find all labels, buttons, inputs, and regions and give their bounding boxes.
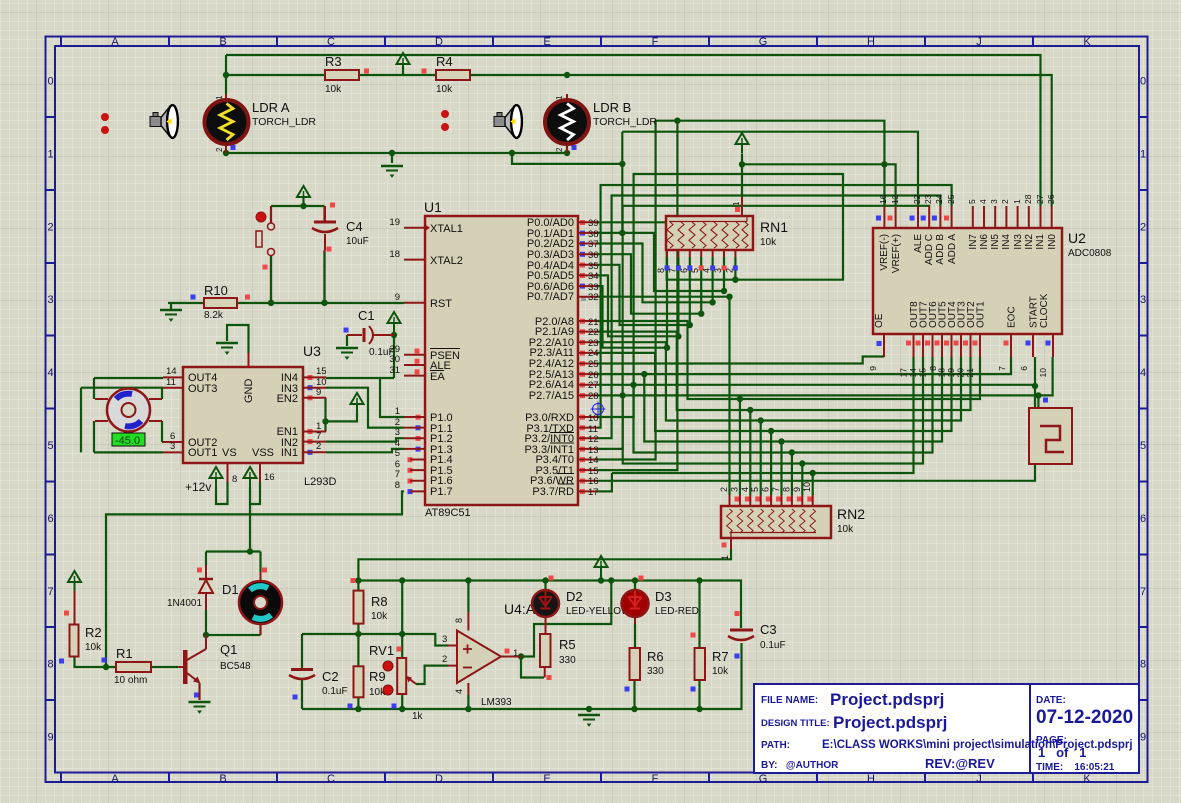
svg-text:7: 7 <box>1140 586 1146 598</box>
svg-text:8: 8 <box>1140 659 1146 671</box>
svg-text:2: 2 <box>1000 199 1010 204</box>
svg-text:TIME: 16:05:21: TIME: 16:05:21 <box>1036 762 1115 773</box>
svg-text:3: 3 <box>47 294 53 306</box>
svg-text:7: 7 <box>395 469 400 480</box>
svg-text:IN7: IN7 <box>968 234 979 250</box>
svg-text:27: 27 <box>588 380 599 391</box>
svg-text:8: 8 <box>232 474 237 485</box>
svg-text:B: B <box>219 36 226 48</box>
svg-text:START: START <box>1029 296 1040 328</box>
svg-text:1: 1 <box>47 148 53 160</box>
svg-text:8: 8 <box>781 487 791 492</box>
svg-text:E: E <box>543 773 550 785</box>
svg-text:1: 1 <box>395 406 400 417</box>
svg-text:RST: RST <box>430 298 452 310</box>
svg-text:J: J <box>976 36 982 48</box>
svg-text:330: 330 <box>647 666 664 677</box>
svg-text:LM393: LM393 <box>481 697 512 708</box>
svg-text:3: 3 <box>989 199 999 204</box>
svg-text:Project.pdsprj: Project.pdsprj <box>833 713 947 732</box>
svg-text:VREF(-): VREF(-) <box>879 234 890 271</box>
svg-text:10: 10 <box>588 413 599 424</box>
svg-text:39: 39 <box>588 218 599 229</box>
svg-text:Project.pdsprj: Project.pdsprj <box>830 690 944 709</box>
svg-text:E: E <box>543 36 550 48</box>
svg-text:20: 20 <box>956 368 966 378</box>
svg-text:1 of 1: 1 of 1 <box>1038 745 1086 760</box>
svg-text:7: 7 <box>771 487 781 492</box>
svg-text:2: 2 <box>215 147 224 152</box>
svg-text:7: 7 <box>667 268 677 273</box>
svg-text:22: 22 <box>588 327 599 338</box>
svg-text:C3: C3 <box>760 622 777 637</box>
svg-text:07-12-2020: 07-12-2020 <box>1036 707 1133 728</box>
svg-text:OUT3: OUT3 <box>188 383 217 395</box>
svg-text:25: 25 <box>588 359 599 370</box>
svg-text:5: 5 <box>1140 440 1146 452</box>
svg-text:8: 8 <box>656 268 666 273</box>
svg-text:19: 19 <box>389 217 400 228</box>
svg-text:XTAL1: XTAL1 <box>430 223 463 235</box>
svg-text:BY: @AUTHOR: BY: @AUTHOR <box>761 760 839 771</box>
svg-text:VS: VS <box>222 447 237 459</box>
svg-text:P1.7: P1.7 <box>430 486 453 498</box>
svg-text:F: F <box>652 773 659 785</box>
svg-text:R6: R6 <box>647 649 664 664</box>
svg-text:1: 1 <box>720 555 730 560</box>
svg-text:0.1uF: 0.1uF <box>369 347 395 358</box>
svg-text:1: 1 <box>1012 199 1022 204</box>
svg-text:IN0: IN0 <box>1047 234 1058 250</box>
svg-text:10k: 10k <box>837 524 854 535</box>
svg-text:P2.7/A15: P2.7/A15 <box>529 390 574 402</box>
svg-text:16: 16 <box>264 472 275 483</box>
svg-text:1: 1 <box>732 201 741 206</box>
svg-text:14: 14 <box>588 455 599 466</box>
svg-text:2: 2 <box>47 221 53 233</box>
svg-text:10k: 10k <box>371 611 388 622</box>
svg-text:IN3: IN3 <box>1013 234 1024 250</box>
svg-text:0: 0 <box>1140 76 1146 88</box>
svg-text:ADC0808: ADC0808 <box>1068 248 1112 259</box>
svg-text:25: 25 <box>946 194 956 204</box>
svg-text:2: 2 <box>719 487 729 492</box>
svg-text:4: 4 <box>702 268 712 273</box>
svg-text:9: 9 <box>1140 732 1146 744</box>
svg-text:14: 14 <box>166 366 177 377</box>
svg-text:C2: C2 <box>322 669 339 684</box>
svg-text:LED-RED: LED-RED <box>655 606 699 617</box>
svg-text:IN2: IN2 <box>1024 234 1035 250</box>
svg-text:17: 17 <box>588 487 599 498</box>
svg-text:31: 31 <box>389 365 400 376</box>
svg-text:16: 16 <box>588 476 599 487</box>
svg-text:U3: U3 <box>303 343 321 359</box>
svg-text:A: A <box>111 36 119 48</box>
svg-text:5: 5 <box>750 487 760 492</box>
svg-text:6: 6 <box>1140 513 1146 525</box>
svg-text:G: G <box>759 36 768 48</box>
svg-text:28: 28 <box>1023 194 1033 204</box>
svg-text:4: 4 <box>978 199 988 204</box>
svg-text:D: D <box>435 773 443 785</box>
svg-text:6: 6 <box>1019 366 1029 371</box>
svg-text:9: 9 <box>792 487 802 492</box>
svg-text:R7: R7 <box>712 649 729 664</box>
svg-text:6: 6 <box>47 513 53 525</box>
svg-text:C: C <box>327 773 335 785</box>
svg-text:36: 36 <box>588 250 599 261</box>
svg-text:3: 3 <box>1140 294 1146 306</box>
svg-text:ADD B: ADD B <box>935 234 946 265</box>
svg-text:D1: D1 <box>222 582 239 597</box>
svg-text:10: 10 <box>802 482 812 492</box>
svg-text:XTAL2: XTAL2 <box>430 255 463 267</box>
svg-text:27: 27 <box>1035 194 1045 204</box>
svg-text:D3: D3 <box>655 589 672 604</box>
svg-text:9: 9 <box>395 292 400 303</box>
svg-text:C: C <box>327 36 335 48</box>
svg-text:J: J <box>976 773 982 785</box>
svg-text:10k: 10k <box>760 237 777 248</box>
svg-text:K: K <box>1083 773 1091 785</box>
svg-text:17: 17 <box>899 368 909 378</box>
svg-text:FILE NAME:: FILE NAME: <box>761 695 818 706</box>
svg-text:8: 8 <box>395 480 400 491</box>
svg-text:A: A <box>111 773 119 785</box>
svg-text:10: 10 <box>1038 368 1048 378</box>
svg-text:PATH:: PATH: <box>761 740 790 751</box>
svg-text:REV:@REV: REV:@REV <box>925 756 995 771</box>
svg-text:K: K <box>1083 36 1091 48</box>
svg-text:VSS: VSS <box>252 447 274 459</box>
svg-text:G: G <box>759 773 768 785</box>
svg-text:5: 5 <box>967 199 977 204</box>
svg-text:1: 1 <box>513 648 518 659</box>
svg-text:2: 2 <box>555 147 564 152</box>
svg-text:OUT1: OUT1 <box>188 447 217 459</box>
svg-text:10k: 10k <box>712 666 729 677</box>
svg-text:D2: D2 <box>566 589 583 604</box>
svg-text:330: 330 <box>559 655 576 666</box>
svg-text:37: 37 <box>588 239 599 250</box>
svg-text:10k: 10k <box>325 84 342 95</box>
svg-text:TORCH_LDR: TORCH_LDR <box>252 116 316 128</box>
svg-text:2: 2 <box>724 268 734 273</box>
svg-text:6: 6 <box>761 487 771 492</box>
svg-text:R1: R1 <box>116 646 133 661</box>
svg-text:4: 4 <box>740 487 750 492</box>
svg-text:12: 12 <box>588 434 599 445</box>
svg-text:U1: U1 <box>424 199 442 215</box>
svg-text:22: 22 <box>912 194 922 204</box>
svg-text:10 ohm: 10 ohm <box>114 675 147 686</box>
svg-text:9: 9 <box>316 387 321 398</box>
svg-text:IN5: IN5 <box>990 234 1001 250</box>
svg-text:L293D: L293D <box>304 476 336 488</box>
svg-text:CLOCK: CLOCK <box>1039 293 1050 328</box>
svg-text:TORCH_LDR: TORCH_LDR <box>593 116 657 128</box>
svg-text:ALE: ALE <box>913 234 924 253</box>
svg-text:28: 28 <box>588 391 599 402</box>
svg-text:EA: EA <box>430 371 445 383</box>
svg-text:10k: 10k <box>436 84 453 95</box>
svg-text:LDR A: LDR A <box>252 100 290 115</box>
svg-text:2: 2 <box>442 654 447 665</box>
svg-text:VREF(+): VREF(+) <box>891 234 902 273</box>
svg-text:C4: C4 <box>346 219 363 234</box>
svg-text:H: H <box>867 773 875 785</box>
svg-text:ADD C: ADD C <box>924 234 935 265</box>
svg-text:15: 15 <box>918 368 928 378</box>
svg-text:C1: C1 <box>358 308 375 323</box>
svg-text:IN1: IN1 <box>281 447 298 459</box>
svg-text:4: 4 <box>1140 367 1146 379</box>
svg-text:8: 8 <box>454 618 464 623</box>
svg-text:BC548: BC548 <box>220 661 251 672</box>
svg-text:9: 9 <box>47 732 53 744</box>
svg-text:B: B <box>219 773 226 785</box>
svg-text:19: 19 <box>946 368 956 378</box>
svg-text:23: 23 <box>923 194 933 204</box>
svg-text:5: 5 <box>690 268 700 273</box>
svg-text:IN1: IN1 <box>1035 234 1046 250</box>
svg-text:R5: R5 <box>559 637 576 652</box>
svg-text:ADD A: ADD A <box>947 234 958 264</box>
svg-text:7: 7 <box>997 366 1007 371</box>
svg-text:1: 1 <box>215 95 224 100</box>
svg-text:DESIGN TITLE:: DESIGN TITLE: <box>761 718 830 729</box>
svg-text:5: 5 <box>395 448 400 459</box>
svg-text:0.1uF: 0.1uF <box>322 686 348 697</box>
svg-text:GND: GND <box>243 379 255 404</box>
svg-text:DATE:: DATE: <box>1036 695 1066 706</box>
svg-text:10uF: 10uF <box>346 236 369 247</box>
svg-text:7: 7 <box>47 586 53 598</box>
svg-text:34: 34 <box>588 271 599 282</box>
svg-text:5: 5 <box>47 440 53 452</box>
svg-text:1: 1 <box>555 95 564 100</box>
svg-text:IN6: IN6 <box>979 234 990 250</box>
svg-text:U2: U2 <box>1068 230 1086 246</box>
svg-text:P3.7/RD: P3.7/RD <box>532 486 574 498</box>
svg-text:D: D <box>435 36 443 48</box>
svg-text:12: 12 <box>890 194 900 204</box>
svg-text:3: 3 <box>713 268 723 273</box>
svg-text:EOC: EOC <box>1007 306 1018 328</box>
svg-text:1k: 1k <box>412 711 424 722</box>
svg-text:16: 16 <box>878 194 888 204</box>
svg-text:2: 2 <box>1140 221 1146 233</box>
svg-text:R3: R3 <box>325 54 342 69</box>
svg-text:0.1uF: 0.1uF <box>760 640 786 651</box>
svg-text:3: 3 <box>170 441 175 452</box>
svg-text:F: F <box>652 36 659 48</box>
svg-text:3: 3 <box>442 634 447 645</box>
svg-text:R10: R10 <box>204 283 228 298</box>
svg-text:3: 3 <box>729 487 739 492</box>
svg-text:IN4: IN4 <box>1001 234 1012 250</box>
svg-text:4: 4 <box>47 367 53 379</box>
svg-text:4: 4 <box>454 689 464 694</box>
svg-text:EN2: EN2 <box>277 393 298 405</box>
svg-text:RN1: RN1 <box>760 219 788 235</box>
svg-text:18: 18 <box>937 368 947 378</box>
svg-text:RN2: RN2 <box>837 506 865 522</box>
svg-text:21: 21 <box>965 368 975 378</box>
svg-text:1: 1 <box>1140 148 1146 160</box>
svg-text:H: H <box>867 36 875 48</box>
svg-text:R2: R2 <box>85 625 102 640</box>
svg-text:24: 24 <box>934 194 944 204</box>
svg-text:24: 24 <box>588 348 599 359</box>
svg-text:15: 15 <box>316 366 327 377</box>
svg-text:AT89C51: AT89C51 <box>425 507 471 519</box>
svg-text:R4: R4 <box>436 54 453 69</box>
svg-text:R8: R8 <box>371 594 388 609</box>
svg-text:10k: 10k <box>85 642 102 653</box>
svg-text:+12v: +12v <box>185 480 211 494</box>
svg-text:LDR B: LDR B <box>593 100 631 115</box>
svg-text:RV1: RV1 <box>369 643 394 658</box>
svg-text:OE: OE <box>874 313 885 328</box>
svg-text:11: 11 <box>166 377 176 388</box>
svg-text:9: 9 <box>868 366 878 371</box>
svg-text:8: 8 <box>47 659 53 671</box>
svg-text:26: 26 <box>1046 194 1056 204</box>
svg-text:6: 6 <box>679 268 689 273</box>
svg-text:2: 2 <box>316 441 321 452</box>
svg-text:0: 0 <box>47 76 53 88</box>
svg-text:32: 32 <box>588 292 599 303</box>
svg-text:3: 3 <box>395 427 400 438</box>
svg-text:OUT1: OUT1 <box>976 301 987 328</box>
svg-text:8.2k: 8.2k <box>204 310 224 321</box>
svg-text:14: 14 <box>908 368 918 378</box>
svg-text:-45.0: -45.0 <box>115 435 140 447</box>
svg-text:1N4001: 1N4001 <box>167 598 202 609</box>
svg-text:18: 18 <box>389 249 400 260</box>
svg-text:P0.7/AD7: P0.7/AD7 <box>527 291 574 303</box>
svg-text:R9: R9 <box>369 669 386 684</box>
svg-text:Q1: Q1 <box>220 642 237 657</box>
